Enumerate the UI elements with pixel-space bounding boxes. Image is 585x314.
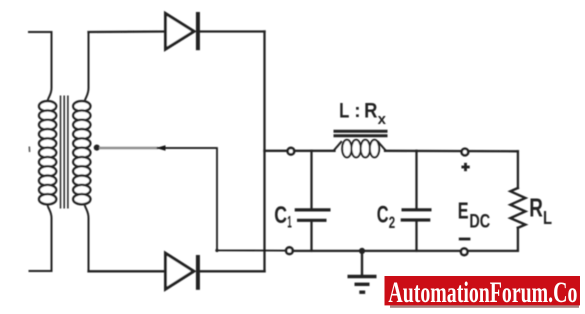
capacitor C2 plates — [401, 210, 432, 220]
wire secondary bottom to diode D2 — [89, 270, 166, 272]
diode D2 — [166, 253, 198, 290]
capacitor C1 plates — [295, 210, 331, 220]
watermark banner — [385, 276, 581, 309]
resistor RL zigzag — [510, 188, 525, 228]
svg-text::: : — [354, 101, 360, 122]
svg-text:AutomationForum.Co: AutomationForum.Co — [388, 277, 577, 309]
svg-text:C: C — [377, 201, 389, 228]
terminal circle filter input top — [288, 148, 295, 155]
capacitor C2 top lead — [415, 151, 417, 208]
ground stem — [361, 251, 363, 276]
terminal circle EDC plus — [462, 149, 469, 156]
svg-text:2: 2 — [389, 213, 395, 232]
wire RL bottom to rail — [292, 228, 518, 251]
ground junction dot — [359, 248, 365, 254]
svg-text:E: E — [458, 197, 469, 223]
transformer T1 core — [61, 96, 68, 209]
minus sign at EDC bottom — [459, 238, 471, 241]
wire D2 cathode to bus — [200, 270, 265, 272]
wire secondary bottom lead — [85, 206, 89, 271]
wire load right side down — [517, 151, 519, 188]
junction at center tap corner — [215, 249, 218, 252]
wire rectifier output bus — [263, 32, 265, 272]
wire primary bottom lead — [30, 206, 52, 271]
capacitor C1 top lead — [310, 151, 312, 208]
wire top rail inductor to load corner — [385, 150, 518, 153]
diode D1 — [166, 12, 198, 50]
wire center tap to corner with arrowhead — [99, 148, 286, 251]
wire primary top lead — [29, 32, 52, 100]
inductor core bars — [334, 131, 388, 136]
svg-text:DC: DC — [469, 211, 490, 232]
svg-text:R: R — [364, 99, 377, 122]
plus sign at EDC top — [461, 163, 469, 171]
transformer T1 secondary winding — [73, 101, 90, 204]
terminal circle filter input bottom — [286, 247, 293, 254]
arrowhead on center tap wire — [156, 145, 166, 151]
terminal circle EDC minus — [461, 249, 468, 256]
svg-text:x: x — [378, 111, 387, 128]
svg-text:R: R — [529, 192, 543, 222]
wire top rail bus to inductor — [265, 150, 335, 152]
svg-text:L: L — [339, 99, 349, 122]
stray mark left edge — [28, 147, 30, 153]
wire D1 cathode to bus — [199, 30, 265, 32]
svg-text:L: L — [543, 208, 552, 228]
svg-text:C: C — [274, 202, 287, 229]
center tap node — [94, 145, 100, 151]
wire secondary top to diode D1 — [89, 30, 166, 33]
capacitor C2 bottom lead — [415, 222, 417, 251]
capacitor C1 bottom lead — [310, 222, 312, 251]
transformer T1 primary winding — [39, 101, 56, 204]
svg-text:1: 1 — [287, 213, 292, 232]
inductor L coil — [334, 140, 387, 158]
ground symbol bars — [348, 277, 377, 293]
wire secondary top lead — [85, 32, 89, 100]
